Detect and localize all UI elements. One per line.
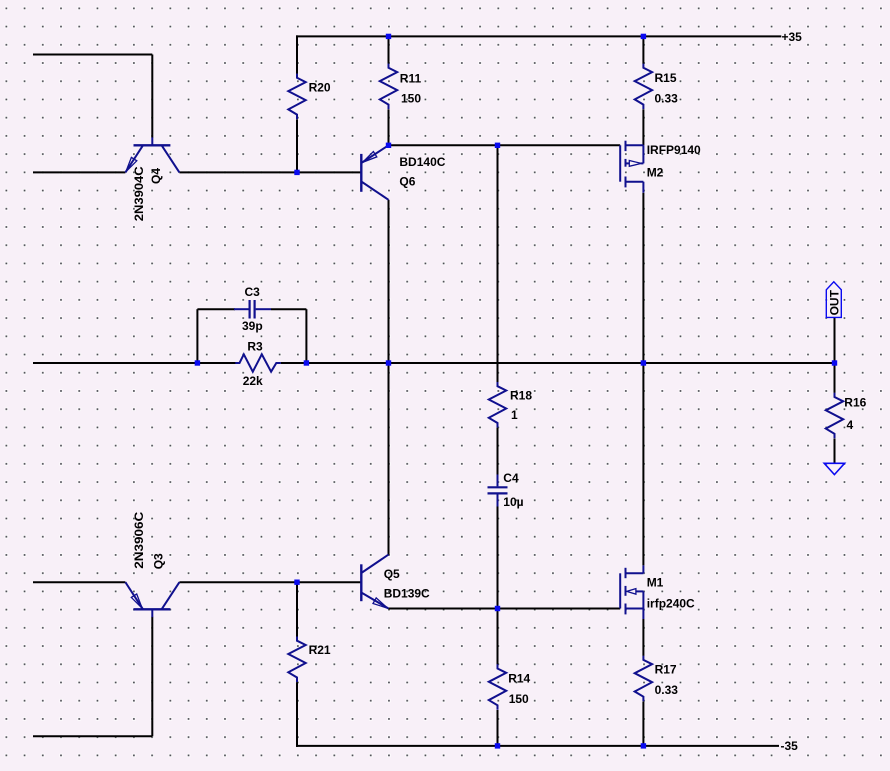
svg-text:R3: R3 <box>247 340 263 354</box>
svg-text:150: 150 <box>401 92 421 106</box>
svg-text:Q4: Q4 <box>149 168 163 184</box>
svg-text:R16: R16 <box>844 396 866 410</box>
svg-text:4: 4 <box>847 418 854 432</box>
svg-text:22k: 22k <box>243 374 263 388</box>
svg-text:0.33: 0.33 <box>655 683 679 697</box>
svg-text:Q6: Q6 <box>399 175 415 189</box>
svg-text:-35: -35 <box>781 739 799 753</box>
svg-text:OUT: OUT <box>827 289 841 315</box>
svg-text:BD140C: BD140C <box>399 155 445 169</box>
svg-text:IRFP9140: IRFP9140 <box>647 143 701 157</box>
svg-text:Q3: Q3 <box>152 553 166 569</box>
svg-text:10µ: 10µ <box>503 495 523 509</box>
svg-text:39p: 39p <box>242 319 263 333</box>
svg-text:R21: R21 <box>309 643 331 657</box>
svg-text:BD139C: BD139C <box>384 587 430 601</box>
svg-text:C3: C3 <box>245 285 261 299</box>
svg-text:2N3904C: 2N3904C <box>132 166 146 221</box>
svg-text:M1: M1 <box>647 576 664 590</box>
svg-text:R18: R18 <box>510 389 532 403</box>
svg-text:Q5: Q5 <box>384 567 400 581</box>
svg-text:R11: R11 <box>400 71 422 85</box>
svg-text:R17: R17 <box>655 663 677 677</box>
svg-text:+35: +35 <box>782 30 803 44</box>
svg-text:1: 1 <box>511 408 518 422</box>
svg-text:R20: R20 <box>309 81 331 95</box>
svg-text:2N3906C: 2N3906C <box>132 511 146 568</box>
svg-text:M2: M2 <box>647 166 664 180</box>
svg-text:150: 150 <box>509 692 529 706</box>
svg-text:0.33: 0.33 <box>655 92 679 106</box>
svg-text:C4: C4 <box>503 471 519 485</box>
svg-text:R14: R14 <box>508 672 530 686</box>
svg-text:irfp240C: irfp240C <box>647 597 695 611</box>
svg-text:R15: R15 <box>655 71 677 85</box>
